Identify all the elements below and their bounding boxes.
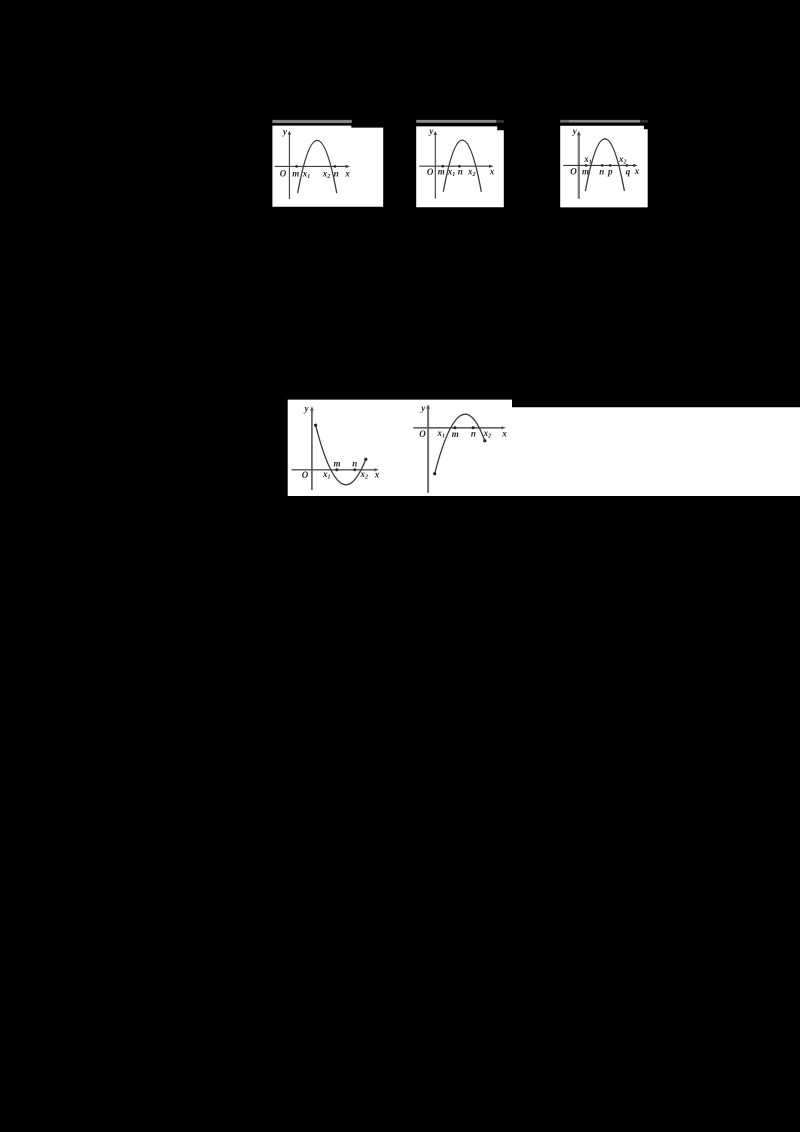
graph 5 dot n [472,426,475,429]
graph 1 white panel [272,126,383,207]
graph 4 dot n [353,468,356,471]
graph 2 y-axis [434,131,437,199]
graph 4 curve (upward parabola segment) [316,425,366,485]
graph 3 x-axis [563,164,637,167]
graph 3 dot p [609,164,612,167]
svg-text:p: p [607,167,613,177]
svg-text:x: x [501,429,507,439]
svg-text:x: x [634,166,640,176]
graph 5 dot on curve (lower right) [483,439,486,442]
graph 1 parabola [298,140,337,193]
svg-text:x: x [489,167,495,177]
svg-text:x: x [344,168,350,178]
svg-text:n: n [458,167,463,177]
graph 2 dot n [458,165,461,168]
gray heading bar above graph 1 [272,120,351,123]
svg-text:q: q [626,167,631,177]
svg-text:n: n [471,429,476,439]
dark right end of bar 2 [496,120,504,123]
graph 3 dot q [626,164,629,167]
graph 4 dot m [335,468,338,471]
svg-text:m: m [452,429,459,439]
svg-text:O: O [280,169,287,179]
dark right end of bar 3 [640,120,648,123]
graph 2 dot m [441,165,444,168]
graph 5 dot on curve (lower left) [433,472,436,475]
graph 4 dot on curve (upper left) [314,424,317,427]
svg-text:m: m [292,168,299,178]
svg-text:m: m [582,167,589,177]
svg-text:x: x [374,469,380,479]
graph 3 parabola [585,139,624,191]
gray heading bar above graph 2 [416,120,496,123]
svg-text:O: O [302,470,309,480]
graph 5 x-axis (gray) [413,426,506,429]
graph 4 dot on curve (upper right) [364,458,367,461]
graph 1 x-axis [275,165,350,168]
graph 3 y-axis (gray, thick) [577,131,581,199]
svg-text:n: n [599,167,604,177]
svg-text:m: m [333,458,340,468]
graph 4 x-axis [292,468,379,471]
graph 4 y-axis (gray) [310,406,314,490]
gray heading bar above graph 3 (dark left tip) [560,120,569,123]
graph 5 y-axis (gray) [426,404,430,493]
graph 5 dot m [454,426,457,429]
graph 2 x-axis [419,165,493,168]
svg-text:n: n [334,168,339,178]
svg-text:m: m [438,167,445,177]
gray heading bar above graph 3 (light middle) [569,120,641,123]
graph 2 white panel [416,126,504,207]
graph 3 white panel [560,126,648,208]
graph 3 dot n [601,164,604,167]
graph 2 parabola [443,140,481,192]
graph 3 dot m [585,164,588,167]
svg-text:n: n [352,458,357,468]
graph 1 y-axis [288,131,291,199]
graph 5 curve (downward parabola segment) [435,414,485,474]
row 2 white band (two graphs share it; hidden RGB extends to page edge) [288,400,800,496]
svg-text:O: O [419,429,426,439]
graph 1 dot n [334,165,337,168]
svg-text:O: O [570,167,577,177]
graph 1 dot m [295,165,298,168]
svg-text:O: O [427,167,434,177]
